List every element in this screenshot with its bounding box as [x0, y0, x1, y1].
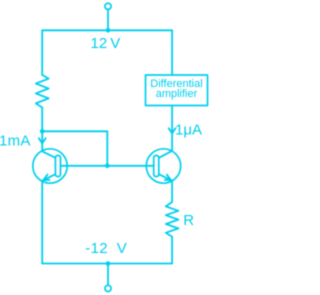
1uA current arrow [169, 128, 176, 133]
node junction top [106, 28, 111, 33]
resistor left [36, 75, 49, 108]
svg-text:1μA: 1μA [175, 121, 202, 138]
wire top stub [107, 9, 109, 30]
wire left branch lower [41, 108, 43, 152]
svg-text:V: V [117, 240, 127, 257]
svg-text:V: V [110, 35, 120, 52]
wire right branch upper [171, 30, 173, 75]
wire +12V rail [42, 29, 172, 31]
wire -12V rail [42, 263, 172, 265]
wire R to -12V rail [171, 237, 173, 264]
wire emitter Q1 down [41, 181, 43, 264]
wire base bus [61, 165, 154, 167]
svg-text:-12: -12 [85, 240, 108, 257]
node junction collector-base tie [40, 129, 45, 134]
transistor Q2 [146, 149, 180, 183]
wire emitter Q2 to resistor R [171, 181, 173, 202]
wire bottom stub [107, 264, 109, 286]
node junction base wire [105, 164, 110, 169]
terminal bottom [105, 285, 111, 291]
node junction bottom [106, 261, 111, 266]
svg-text:amplifier: amplifier [156, 88, 198, 100]
1mA current arrow [39, 138, 46, 143]
wire collector to base tie horizontal [42, 131, 107, 166]
terminal top [105, 3, 111, 9]
wire left branch upper [41, 30, 43, 75]
svg-text:R: R [183, 212, 194, 229]
svg-text:1mA: 1mA [0, 133, 31, 150]
resistor R [166, 202, 179, 237]
svg-text:12: 12 [91, 35, 108, 52]
transistor Q1 [33, 149, 67, 183]
differential amplifier box [146, 75, 208, 106]
wire box to Q2 collector [171, 106, 173, 151]
